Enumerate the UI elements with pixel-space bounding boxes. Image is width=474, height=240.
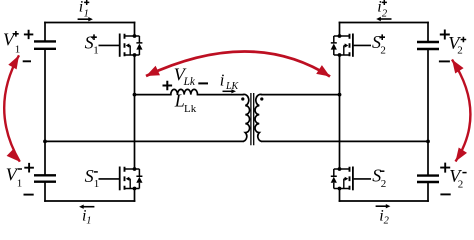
svg-text:1: 1 xyxy=(94,178,100,190)
svg-text:Lk: Lk xyxy=(183,76,196,88)
capacitor V2+ xyxy=(417,42,439,49)
transformer core xyxy=(251,93,254,145)
gate lead S1- xyxy=(99,178,120,180)
svg-text:i: i xyxy=(220,71,225,90)
current arrow i1+ (top left, pointing right) xyxy=(78,18,90,20)
transistor S2+ xyxy=(352,34,354,57)
wire mid A left (switch midpoint to inductor) xyxy=(135,94,171,96)
svg-text:2: 2 xyxy=(382,8,388,19)
svg-text:S: S xyxy=(85,32,94,52)
node: right switch midpoint xyxy=(338,93,342,97)
svg-text:Lk: Lk xyxy=(184,103,197,115)
transistor S2- xyxy=(352,167,354,191)
transformer primary winding xyxy=(243,94,250,141)
transformer secondary polarity dot xyxy=(260,97,263,100)
transformer primary polarity dot xyxy=(241,97,244,100)
red swap arrow right (V2+ <-> V2-) xyxy=(452,60,470,162)
current arrow i2 (bottom right, pointing right) xyxy=(376,205,387,207)
current arrow i2+ (top right, pointing left) xyxy=(380,18,392,20)
svg-text:1: 1 xyxy=(15,43,20,55)
wire top-left rail xyxy=(45,22,135,24)
wire right leg lower xyxy=(339,189,341,202)
svg-text:i: i xyxy=(79,0,83,16)
svg-text:1: 1 xyxy=(86,216,91,225)
svg-text:2: 2 xyxy=(384,216,390,225)
wire left leg upper xyxy=(134,23,136,37)
inductor LLk xyxy=(171,89,198,94)
svg-text:2: 2 xyxy=(457,45,463,57)
node: left capacitor midpoint xyxy=(43,140,47,144)
svg-text:2: 2 xyxy=(458,179,464,191)
svg-text:1: 1 xyxy=(93,45,99,57)
transformer secondary winding xyxy=(255,94,262,141)
wire mid A right (secondary to switch midpoint) xyxy=(262,94,340,96)
wire mid B left (cap midpoint to primary bottom) xyxy=(45,140,243,142)
node: left switch midpoint xyxy=(133,93,137,97)
wire left leg lower xyxy=(134,189,136,202)
node: right capacitor midpoint xyxy=(426,140,430,144)
wire right capacitor stack xyxy=(427,23,429,43)
wire top-right rail xyxy=(340,22,429,24)
transistor S1- xyxy=(119,167,121,191)
red swap arrow middle (S1 <-> S2) xyxy=(146,51,330,76)
capacitor V1- xyxy=(34,175,56,181)
svg-text:1: 1 xyxy=(84,8,89,19)
svg-text:LK: LK xyxy=(225,81,240,92)
wire right leg upper xyxy=(339,23,341,37)
wire mid A left (inductor to primary) xyxy=(198,94,243,96)
gate lead S1+ xyxy=(99,44,120,46)
wire right leg middle xyxy=(339,55,341,169)
wire left leg middle xyxy=(134,55,136,169)
wire bottom-left rail xyxy=(45,200,135,202)
svg-text:2: 2 xyxy=(380,44,386,56)
wire mid B right (secondary bottom to cap midpoint) xyxy=(262,140,428,142)
capacitor V1+ xyxy=(34,41,56,48)
wire bottom-right rail xyxy=(340,200,429,202)
gate lead S2+ xyxy=(354,44,371,46)
red swap arrow left (V1+ <-> V1-) xyxy=(4,55,20,161)
capacitor V2- xyxy=(417,176,439,182)
svg-text:S: S xyxy=(85,166,94,186)
transistor S1+ xyxy=(119,34,121,57)
svg-text:1: 1 xyxy=(17,178,23,190)
gate lead S2- xyxy=(354,178,371,180)
svg-text:2: 2 xyxy=(381,178,387,190)
current arrow i1 (bottom left, pointing left) xyxy=(83,206,95,208)
wire left capacitor stack xyxy=(44,23,46,42)
current arrow iLK (middle, pointing right) xyxy=(223,90,232,92)
